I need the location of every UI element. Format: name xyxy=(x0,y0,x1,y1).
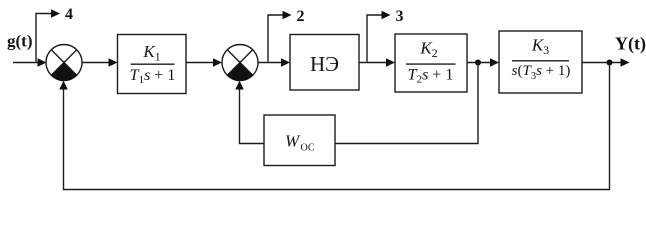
wire: inner feedback from node A into Woc xyxy=(335,63,478,144)
node branch 2 (tap after summer S2) xyxy=(268,11,292,62)
wire: block W3 to output xyxy=(582,58,630,66)
wire: block W2 to block W3 xyxy=(467,58,499,66)
block W1 value K1/(T1s+1) xyxy=(118,35,187,94)
svg-text:W: W xyxy=(285,132,301,151)
node B junction dot (outer feedback tap) xyxy=(607,60,613,66)
block Woc (feedback) xyxy=(264,115,335,166)
svg-text:T1s + 1: T1s + 1 xyxy=(130,67,176,86)
svg-text:4: 4 xyxy=(65,6,73,23)
block W2 value K2/(T2s+1) xyxy=(395,34,467,92)
summer S2 (comparator, bottom sector filled) xyxy=(222,45,258,81)
block NE (nonlinear element) xyxy=(290,35,359,91)
wire: Woc output up into summer S2 xyxy=(235,81,264,144)
node branch 4 (tap on input wire) xyxy=(36,9,60,62)
svg-text:Y(t): Y(t) xyxy=(615,34,646,55)
svg-text:3: 3 xyxy=(396,8,404,25)
svg-text:g(t): g(t) xyxy=(7,32,32,51)
node branch 3 (tap after NE) xyxy=(367,11,391,62)
block W3 value K3/(s(T3s+1)) xyxy=(499,31,582,93)
wire: outer feedback from node B to summer S1 xyxy=(59,63,609,190)
svg-text:2: 2 xyxy=(297,8,305,25)
wire: summer S1 to block W1 xyxy=(82,58,118,66)
wire: summer S2 to block NE xyxy=(258,58,290,66)
wire: input into summer S1 xyxy=(13,58,47,66)
node A junction dot (tap to Woc) xyxy=(475,60,481,66)
wire: block W1 to summer S2 xyxy=(186,58,222,66)
summer S1 (comparator, bottom sector filled) xyxy=(46,45,82,81)
svg-text:ОС: ОС xyxy=(301,143,315,154)
svg-text:T2s + 1: T2s + 1 xyxy=(408,67,454,86)
svg-text:НЭ: НЭ xyxy=(310,52,339,76)
wire: block NE to block W2 xyxy=(359,58,395,66)
